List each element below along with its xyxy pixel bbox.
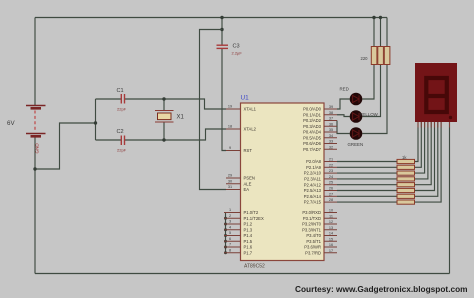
svg-text:22pF: 22pF (117, 148, 127, 153)
svg-text:17: 17 (329, 249, 333, 253)
svg-text:22: 22 (329, 163, 333, 167)
wire pin 6 stub P1.5 (224, 240, 241, 242)
wire resistor R2 top to VCC (380, 18, 382, 47)
svg-text:23: 23 (329, 169, 333, 173)
wire oscillator left vertical (95, 99, 97, 140)
node VCC rail R1 tap (372, 16, 375, 19)
wire display common cathode to ground (449, 122, 451, 274)
wire green LED cathode to resistor (362, 65, 387, 134)
node P1 bus junction 4 (224, 234, 227, 237)
svg-text:P3.7/RD: P3.7/RD (305, 250, 321, 255)
wire pin 27 stub P2.6/A14 (324, 195, 337, 197)
wire pin 5 stub P1.4 (224, 235, 241, 237)
resistor RN3 segment resistor (397, 171, 415, 175)
wire display segment pin 1 to resistor (415, 122, 419, 162)
capacitor C2 (121, 136, 124, 146)
node P1 bus junction 7 (224, 251, 227, 254)
wire pin 22 stub P2.1/A9 (324, 166, 337, 168)
node battery branch junction (33, 167, 36, 170)
wire pin 2 stub P1.1/T2EX (224, 217, 241, 219)
wire P2.0 to segment resistor (337, 161, 397, 163)
wire P0.0 to red LED anode (337, 99, 350, 109)
svg-text:30: 30 (228, 179, 232, 183)
wire P2.4 to segment resistor (337, 184, 397, 186)
wire P1 port bus vertical (225, 213, 227, 253)
svg-text:2.2µF: 2.2µF (232, 51, 243, 56)
wire resistor R3 top to VCC (386, 18, 388, 47)
wire P2.1 to segment resistor (337, 166, 397, 168)
node P1 bus junction 1 (224, 217, 227, 220)
svg-text:X1: X1 (177, 115, 185, 121)
svg-text:4: 4 (229, 225, 231, 229)
wire display pin stub 1 (417, 122, 419, 128)
node P1 bus junction 6 (224, 246, 227, 249)
wire display pin stub 8 (440, 122, 442, 128)
svg-text:P3.3/INT1: P3.3/INT1 (302, 227, 322, 232)
wire pin 7 stub P1.6 (224, 246, 241, 248)
wire display segment pin 6 to resistor (415, 122, 435, 191)
svg-text:35: 35 (329, 128, 333, 132)
svg-text:38: 38 (329, 111, 333, 115)
svg-text:P3.1/TXD: P3.1/TXD (303, 216, 321, 221)
svg-text:P2.6/A14: P2.6/A14 (304, 194, 322, 199)
svg-text:39: 39 (329, 105, 333, 109)
wire display pin stub 2 (420, 122, 422, 128)
svg-text:25: 25 (329, 181, 333, 185)
wire battery negative vertical (34, 136, 36, 273)
svg-text:P0.1/AD1: P0.1/AD1 (303, 112, 322, 117)
wire pin 4 stub P1.3 (224, 229, 241, 231)
wire pin 28 stub P2.7/A15 (324, 201, 337, 203)
svg-text:P2.3/A11: P2.3/A11 (304, 177, 322, 182)
svg-text:P0.7/AD7: P0.7/AD7 (303, 147, 322, 152)
wire pin 14 stub P3.4/T0 (324, 235, 337, 237)
wire pin 23 stub P2.2/A10 (324, 172, 337, 174)
svg-text:220: 220 (361, 56, 369, 61)
svg-text:XTAL1: XTAL1 (244, 107, 257, 112)
wire pin 29 stub PSEN (226, 177, 241, 179)
node VCC rail R2 tap (379, 16, 382, 19)
svg-text:31: 31 (228, 185, 232, 189)
svg-text:P1.1/T2EX: P1.1/T2EX (244, 216, 264, 221)
wire pin 35 stub P0.4/AD4 (324, 131, 337, 133)
svg-text:GND: GND (35, 143, 40, 154)
node P1 bus junction 5 (224, 240, 227, 243)
svg-text:29: 29 (228, 174, 232, 178)
wire C2 row to XTAL2 (96, 139, 122, 141)
svg-text:C1: C1 (117, 88, 124, 94)
svg-text:32: 32 (329, 145, 333, 149)
wire pin 13 stub P3.3/INT1 (324, 229, 337, 231)
wire pin 9 stub RST (226, 150, 241, 152)
svg-text:37: 37 (329, 117, 333, 121)
svg-text:10: 10 (329, 209, 333, 213)
svg-text:P1.7: P1.7 (244, 250, 253, 255)
svg-text:GREEN: GREEN (348, 142, 364, 147)
svg-text:5: 5 (229, 231, 231, 235)
wire display pin stub 6 (434, 122, 436, 128)
crystal X1 (155, 111, 174, 123)
svg-text:AT89C52: AT89C52 (244, 264, 265, 270)
wire VCC top rail (35, 17, 387, 19)
wire pin 31 stub EA (226, 189, 241, 191)
node crystal top junction (162, 97, 165, 100)
wire P0.2 to green LED anode (337, 121, 350, 134)
svg-text:24: 24 (329, 175, 333, 179)
wire pin 32 stub P0.7/AD7 (324, 148, 337, 150)
wire battery positive vertical (34, 18, 36, 106)
wire pin 34 stub P0.5/AD5 (324, 137, 337, 139)
svg-text:7: 7 (229, 243, 231, 247)
resistor RN7 segment resistor (397, 194, 415, 198)
resistor RN8 segment resistor (397, 200, 415, 204)
svg-text:EA: EA (244, 187, 250, 192)
svg-text:P2.5/A13: P2.5/A13 (304, 188, 322, 193)
resistor RN6 segment resistor (397, 188, 415, 192)
svg-text:P2.7/A15: P2.7/A15 (304, 200, 322, 205)
svg-text:P0.4/AD4: P0.4/AD4 (303, 130, 322, 135)
wire pin 21 stub P2.0/A8 (324, 161, 337, 163)
svg-text:2: 2 (229, 214, 231, 218)
svg-text:P3.0/RXD: P3.0/RXD (302, 210, 321, 215)
wire EA tie to VCC (200, 30, 227, 190)
wire P2.6 to segment resistor (337, 195, 397, 197)
svg-text:36: 36 (329, 122, 333, 126)
resistor R2 220 (378, 47, 384, 65)
LED D2 yellow (350, 110, 363, 123)
svg-text:P1.6: P1.6 (244, 245, 253, 250)
wire pin 16 stub P3.6/WR (324, 246, 337, 248)
resistor RN4 segment resistor (397, 177, 415, 181)
wire P2.7 to segment resistor (337, 201, 397, 203)
LED D1 red (350, 93, 363, 106)
wire display segment pin 7 to resistor (415, 122, 438, 196)
svg-text:16: 16 (329, 243, 333, 247)
wire pin 38 stub P0.1/AD1 (324, 114, 337, 116)
wire display pin stub 5 (430, 122, 432, 128)
svg-text:P1.3: P1.3 (244, 227, 253, 232)
wire resistor R1 top to VCC (373, 18, 375, 47)
svg-text:18: 18 (228, 125, 232, 129)
resistor RN5 segment resistor (397, 183, 415, 187)
capacitor C3 (217, 45, 229, 48)
svg-text:P1.0/T2: P1.0/T2 (244, 210, 259, 215)
resistor R3 220 (384, 47, 390, 65)
svg-text:9: 9 (229, 146, 231, 150)
svg-text:C2: C2 (117, 129, 124, 135)
op-amp U1 AT89C52 chip body (241, 103, 325, 261)
svg-text:3: 3 (229, 220, 231, 224)
svg-text:Courtesy: www.Gadgetronicx.blo: Courtesy: www.Gadgetronicx.blogspot.com (295, 284, 468, 294)
svg-text:P2.2/A10: P2.2/A10 (304, 171, 322, 176)
svg-text:C3: C3 (233, 44, 240, 50)
wire pin 26 stub P2.5/A13 (324, 190, 337, 192)
wire pin 39 stub P0.0/AD0 (324, 108, 337, 110)
wire pin 33 stub P0.6/AD6 (324, 143, 337, 145)
svg-text:PSEN: PSEN (244, 176, 255, 181)
svg-text:12: 12 (329, 220, 333, 224)
wire pin 30 stub ALE (226, 183, 241, 185)
wire pin 36 stub P0.3/AD3 (324, 125, 337, 127)
wire pin 18 stub XTAL2 (226, 128, 241, 130)
svg-text:U1: U1 (241, 95, 250, 102)
svg-text:14: 14 (329, 232, 333, 236)
svg-text:28: 28 (329, 198, 333, 202)
svg-text:P3.6/WR: P3.6/WR (304, 245, 321, 250)
battery BAT1 6V (26, 106, 46, 137)
svg-text:21: 21 (329, 158, 333, 162)
wire P2.5 to segment resistor (337, 190, 397, 192)
wire display pin stub 3 (424, 122, 426, 128)
wire pin 15 stub P3.5/T1 (324, 240, 337, 242)
svg-text:22pF: 22pF (117, 107, 127, 112)
wire pin 12 stub P3.2/INT0 (324, 223, 337, 225)
wire pin 24 stub P2.3/A11 (324, 178, 337, 180)
svg-text:6V: 6V (7, 120, 15, 127)
wire display segment pin 8 to resistor (415, 122, 442, 202)
node oscillator left junction (94, 121, 97, 124)
svg-text:YELLOW: YELLOW (360, 112, 379, 117)
wire display pin stub 4 (427, 122, 429, 128)
resistor R1 220 (371, 47, 377, 65)
wire display common pin stub (449, 122, 451, 128)
svg-text:19: 19 (228, 105, 232, 109)
wire pin 17 stub P3.7/RD (324, 252, 337, 254)
wire pin 37 stub P0.2/AD2 (324, 120, 337, 122)
svg-text:P0.5/AD5: P0.5/AD5 (303, 135, 322, 140)
svg-text:6: 6 (229, 237, 231, 241)
wire P2.2 to segment resistor (337, 172, 397, 174)
wire battery branch to oscillator net (35, 123, 96, 169)
wire pin 10 stub P3.0/RXD (324, 212, 337, 214)
svg-text:RED: RED (340, 87, 349, 92)
wire crystal bottom lead (163, 122, 165, 140)
wire P0.1 to yellow LED anode (337, 115, 350, 117)
svg-text:ALE: ALE (244, 181, 252, 186)
svg-text:RST: RST (244, 148, 253, 153)
svg-text:P0.2/AD2: P0.2/AD2 (303, 118, 322, 123)
wire display segment pin 2 to resistor (415, 122, 422, 167)
resistor RN2 segment resistor (397, 165, 415, 169)
svg-text:P1.2: P1.2 (244, 222, 253, 227)
7-segment display DISP1 (415, 63, 457, 122)
wire C3 to RST (222, 48, 226, 151)
LED D3 green (350, 127, 363, 140)
wire red LED cathode to resistor (362, 65, 374, 100)
wire crystal top lead (163, 99, 165, 111)
svg-text:P0.3/AD3: P0.3/AD3 (303, 124, 322, 129)
svg-text:P1.5: P1.5 (244, 239, 253, 244)
svg-text:27: 27 (329, 192, 333, 196)
node P1 bus junction 3 (224, 228, 227, 231)
svg-text:P3.2/INT0: P3.2/INT0 (302, 222, 322, 227)
svg-text:P3.4/T0: P3.4/T0 (306, 233, 321, 238)
svg-text:34: 34 (329, 134, 333, 138)
node C3 EA branch junction (220, 28, 223, 31)
wire pin 8 stub P1.7 (224, 252, 241, 254)
node P1 bus junction 2 (224, 223, 227, 226)
svg-text:P2.1/A9: P2.1/A9 (306, 165, 322, 170)
svg-text:XTAL2: XTAL2 (244, 127, 257, 132)
svg-text:13: 13 (329, 226, 333, 230)
svg-text:P2.0/A8: P2.0/A8 (306, 159, 322, 164)
capacitor C1 (121, 94, 124, 104)
wire pin 25 stub P2.4/A12 (324, 184, 337, 186)
node crystal bottom junction (162, 138, 165, 141)
wire display segment pin 3 to resistor (415, 122, 425, 173)
wire display pin stub 7 (437, 122, 439, 128)
svg-text:P0.6/AD6: P0.6/AD6 (303, 141, 322, 146)
wire pin 19 stub XTAL1 (226, 108, 241, 110)
wire pin 3 stub P1.2 (224, 223, 241, 225)
wire yellow LED cathode to resistor (362, 65, 380, 117)
wire pin 11 stub P3.1/TXD (324, 217, 337, 219)
svg-text:15: 15 (329, 237, 333, 241)
svg-text:11: 11 (329, 214, 333, 218)
svg-text:P0.0/AD0: P0.0/AD0 (303, 107, 322, 112)
svg-text:8: 8 (229, 248, 231, 252)
node VCC rail C3 tap (220, 16, 223, 19)
wire pin 1 stub P1.0/T2 (224, 212, 241, 214)
wire VCC to C3 (221, 18, 223, 46)
svg-text:26: 26 (329, 187, 333, 191)
wire P2.3 to segment resistor (337, 178, 397, 180)
wire display segment pin 4 to resistor (415, 122, 428, 179)
resistor RN1 segment resistor (397, 159, 415, 163)
wire C1 row to XTAL1 (96, 98, 122, 100)
wire ground bottom rail (35, 273, 450, 275)
svg-text:P1.4: P1.4 (244, 233, 253, 238)
wire display segment pin 5 to resistor (415, 122, 432, 185)
svg-text:1: 1 (229, 208, 231, 212)
svg-text:33: 33 (329, 140, 333, 144)
svg-text:P2.4/A12: P2.4/A12 (304, 182, 322, 187)
svg-text:P3.5/T1: P3.5/T1 (306, 239, 321, 244)
